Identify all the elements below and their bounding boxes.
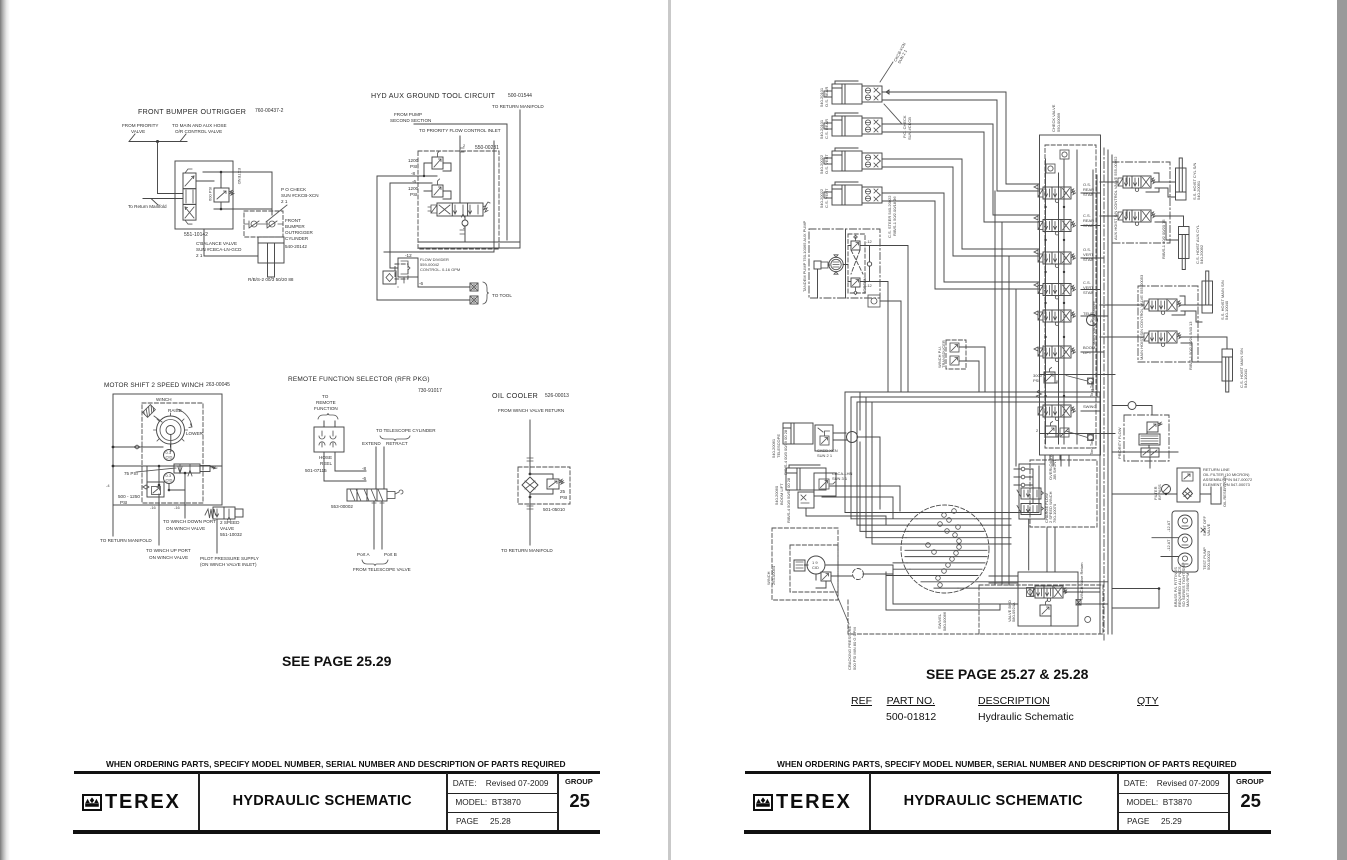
gauge shutoff A (1178, 515, 1192, 529)
gauge pump C (1178, 553, 1192, 567)
inlet check B (1046, 164, 1055, 173)
svg-text:263-00054: 263-00054 (771, 565, 776, 585)
aux module B (1118, 210, 1156, 226)
2 speed valve (205, 509, 216, 518)
svg-text:LOWER: LOWER (186, 431, 204, 436)
gauge block outline (1172, 511, 1198, 572)
wires tool outlets (377, 268, 470, 300)
svg-text:TANDEM PUMP 750-10065 AUX PUMP: TANDEM PUMP 750-10065 AUX PUMP (802, 220, 807, 292)
spool section 3 (183, 204, 196, 220)
lower bank relief (1045, 422, 1056, 438)
see page note L (282, 653, 391, 669)
right vertical bundle (1100, 150, 1112, 634)
wire return manifold (143, 199, 183, 206)
svg-text:ON WINCH VALVE: ON WINCH VALVE (149, 555, 188, 560)
charge spool A (1021, 488, 1041, 499)
winch valve box (1018, 572, 1078, 626)
svg-text:540-20022: 540-20022 (819, 154, 824, 174)
relief 500-1250 (147, 482, 164, 497)
aux module A (1118, 176, 1156, 192)
svg-text:551-10032: 551-10032 (220, 532, 242, 537)
charge flow box (1030, 460, 1097, 527)
winch valve relief (1040, 601, 1051, 617)
title block L (0, 0, 1, 1)
spring right (483, 202, 490, 212)
tele port circle (847, 432, 858, 443)
supply trunks (995, 191, 1016, 585)
svg-text:-12: -12 (866, 239, 873, 244)
wire cyl4 A (882, 193, 1039, 282)
svg-text:2: 2 (463, 143, 466, 148)
svg-text:540-20142: 540-20142 (285, 244, 307, 249)
svg-text:FROM PUMP: FROM PUMP (394, 112, 422, 117)
boom wires (806, 486, 900, 525)
center dashdot riser (1103, 148, 1105, 640)
aux hoist cylinder B (1179, 227, 1190, 270)
svg-text:OIL COOLER: OIL COOLER (492, 392, 538, 400)
steer cylinder 2 (824, 113, 882, 136)
tool connector A (470, 283, 478, 291)
svg-text:600 PSI: 600 PSI (208, 187, 213, 201)
pump relief upper (851, 241, 860, 250)
bank relief (1044, 368, 1055, 384)
relief valve 600 PSI (214, 188, 229, 202)
svg-text:-12 AT: -12 AT (1166, 539, 1171, 551)
svg-text:TO RETURN MANIFOLD: TO RETURN MANIFOLD (100, 538, 152, 543)
svg-text:SUN #CKCB-XCN: SUN #CKCB-XCN (281, 193, 319, 198)
main hoist control box (1138, 286, 1198, 362)
check valve left (251, 221, 257, 227)
priority flow box (1124, 415, 1169, 461)
svg-text:O.S. VERT: O.S. VERT (824, 154, 829, 174)
svg-text:540-20022: 540-20022 (819, 188, 824, 208)
bank module 4 (1038, 284, 1076, 300)
wire cyl1 B (882, 100, 1039, 191)
tick 16 (527, 458, 533, 461)
svg-text:BUMPER: BUMPER (285, 224, 305, 229)
valve body 551-10142 (175, 161, 233, 229)
svg-text:To Return Manifold: To Return Manifold (128, 204, 167, 209)
wire left top (113, 444, 171, 447)
bank module 7 (1038, 405, 1076, 421)
relief valve 1200psi B (432, 185, 443, 197)
svg-text:TO: TO (322, 394, 329, 399)
main pressure bundle (845, 392, 1100, 525)
bank module 3 (1038, 252, 1076, 268)
svg-text:CYLINDER: CYLINDER (285, 236, 309, 241)
terex logo (82, 794, 102, 811)
svg-text:R/B/S-1 50/2.00/18 36: R/B/S-1 50/2.00/18 36 (892, 196, 897, 236)
bank module 2 (1038, 220, 1076, 236)
motor circle A (164, 450, 175, 461)
svg-text:EXTEND: EXTEND (237, 168, 242, 184)
svg-text:-16: -16 (150, 505, 157, 510)
svg-text:500-01544: 500-01544 (508, 93, 532, 99)
wire cyl4 B (882, 201, 1039, 289)
svg-text:500-00023: 500-00023 (1206, 550, 1211, 570)
svg-text:R/B/S-1 50/2 00/20 75: R/B/S-1 50/2 00/20 75 (1161, 219, 1166, 259)
svg-text:OIL RESERVOIR: OIL RESERVOIR (1222, 476, 1227, 507)
wire transducer A (959, 347, 985, 392)
svg-text:SCREEN: SCREEN (862, 277, 867, 294)
outlet port box (868, 295, 880, 307)
main hoist wires (1100, 296, 1227, 362)
bank module 1 (1038, 187, 1076, 203)
torq tool port upper (1088, 378, 1094, 384)
winch valve inlet (1027, 588, 1034, 597)
svg-text:TELESCOPE: TELESCOPE (776, 434, 781, 458)
priority port circle (1128, 402, 1136, 410)
tool connector B (470, 296, 478, 304)
wire cyl3 A (882, 159, 1039, 249)
check valve right (269, 221, 275, 227)
bottom dashed rail (848, 600, 979, 634)
gallery lines (1046, 150, 1078, 444)
svg-text:553-00002: 553-00002 (331, 504, 353, 509)
swivel gallery lines (905, 513, 987, 589)
wires out (324, 452, 366, 481)
ordering line L (106, 759, 566, 769)
svg-text:263-00045: 263-00045 (206, 382, 230, 388)
priority relief (1147, 422, 1158, 432)
priority lower valve (1141, 448, 1159, 457)
svg-text:TO MAIN AND AUX HOSE: TO MAIN AND AUX HOSE (172, 123, 227, 128)
svg-text:501-05010: 501-05010 (543, 507, 565, 512)
svg-text:REMOTE FUNCTION SELECTOR (RFR: REMOTE FUNCTION SELECTOR (RFR PKG) (288, 376, 430, 383)
bank outlet small (1060, 428, 1069, 437)
svg-text:-8: -8 (362, 466, 367, 471)
cooler diamond (522, 477, 538, 493)
bank inlet arrows (1034, 185, 1038, 351)
svg-text:FRONT: FRONT (285, 218, 301, 223)
svg-text:1200: 1200 (408, 186, 419, 191)
svg-text:PILOT PRESSURE SUPPLY: PILOT PRESSURE SUPPLY (200, 556, 259, 561)
oil reservoir tank (1211, 487, 1221, 504)
svg-text:BOOM LIFT: BOOM LIFT (779, 483, 784, 505)
arc arrow (177, 409, 192, 428)
svg-text:MAIN HOIST S/N CONTROL VALVE 5: MAIN HOIST S/N CONTROL VALVE 555-00053 (1139, 274, 1144, 360)
svg-text:PRIORITY FLOW: PRIORITY FLOW (1117, 427, 1122, 459)
port wires (374, 501, 382, 549)
relief B wires (424, 191, 451, 199)
svg-text:AUX HOIST S/N CONTROL VALVE 55: AUX HOIST S/N CONTROL VALVE 555-00052 (1113, 156, 1118, 240)
wire cyl2 B (882, 132, 1039, 222)
svg-text:O/R CONTROL VALVE: O/R CONTROL VALVE (175, 129, 222, 134)
steer cylinder LR (824, 81, 882, 104)
svg-text:540-20101: 540-20101 (819, 87, 824, 107)
svg-text:O.S. REAR: O.S. REAR (824, 87, 829, 107)
spool section 1 (183, 173, 196, 189)
svg-text:-6: -6 (362, 476, 367, 481)
svg-text:TRANSDUCER: TRANSDUCER (941, 340, 946, 368)
relief pilot dash upper (1049, 379, 1057, 383)
svg-text:CID: CID (812, 565, 819, 570)
winch valve module (1030, 586, 1068, 602)
priority filter element (1139, 434, 1160, 445)
winch outer box (113, 394, 222, 505)
wire priority supply (129, 134, 187, 142)
filter gauge (1162, 485, 1171, 494)
swivel right links (958, 466, 1108, 588)
node junction (156, 140, 159, 143)
charge spool B (1021, 504, 1041, 515)
wires into reel (324, 421, 335, 427)
main valve outer box (1040, 135, 1101, 455)
svg-text:-6: -6 (419, 281, 424, 286)
swivel ports (926, 509, 962, 588)
po check assembly box (244, 211, 283, 237)
svg-text:C'BALANCE VALVE: C'BALANCE VALVE (196, 241, 237, 246)
svg-text:1200: 1200 (408, 158, 419, 163)
wire cross (113, 465, 222, 467)
winch valve port X (1076, 600, 1081, 606)
svg-text:BYPASS: BYPASS (1157, 484, 1162, 500)
bank module 5 (1038, 310, 1076, 326)
svg-text:STAB: STAB (1083, 290, 1093, 295)
svg-text:WINCH: WINCH (156, 397, 172, 402)
wire out (529, 494, 531, 545)
couplers (319, 431, 336, 447)
svg-text:P O CHECK: P O CHECK (281, 187, 307, 192)
svg-text:FROM WINCH VALVE RETURN: FROM WINCH VALVE RETURN (498, 408, 564, 413)
svg-text:REEL: REEL (320, 461, 332, 466)
shift spool (174, 464, 200, 473)
wires telescope (376, 447, 384, 489)
svg-text:2 SPEED: 2 SPEED (220, 520, 240, 525)
callout check label mid (884, 104, 902, 124)
bundle to boxes wires (1108, 182, 1112, 305)
svg-text:LIFT: LIFT (1083, 350, 1092, 355)
motor circle B (164, 473, 175, 484)
svg-text:HYD AUX GROUND TOOL CIRCUIT: HYD AUX GROUND TOOL CIRCUIT (371, 92, 496, 100)
main module A (1144, 299, 1182, 315)
svg-text:R/B/S-2 00/3 50/20 88: R/B/S-2 00/3 50/20 88 (248, 277, 294, 282)
relief A wires (424, 163, 451, 176)
wire relief bottom (214, 202, 272, 209)
svg-text:TO RETURN MANIFOLD: TO RETURN MANIFOLD (501, 548, 553, 553)
svg-text:HOSE: HOSE (319, 455, 332, 460)
svg-text:VALVE: VALVE (220, 526, 234, 531)
pilot circle (867, 262, 871, 266)
svg-text:-12 AT: -12 AT (1166, 520, 1171, 532)
svg-text:760-00437-2: 760-00437-2 (255, 108, 284, 114)
svg-text:-16: -16 (174, 505, 181, 510)
svg-text:MAX AT 2500 RPM: MAX AT 2500 RPM (1185, 573, 1190, 607)
svg-text:PSI: PSI (410, 192, 417, 197)
winch callout (831, 581, 849, 624)
solenoid left (428, 205, 437, 213)
svg-text:TO WINCH DOWN PORT: TO WINCH DOWN PORT (163, 519, 216, 524)
wire transducer B (959, 361, 979, 392)
svg-text:FROM PRIORITY: FROM PRIORITY (122, 123, 159, 128)
svg-text:ON WINCH VALVE: ON WINCH VALVE (166, 526, 205, 531)
flex hose zigzag (1037, 390, 1042, 398)
trunk extensions swivel left (860, 436, 908, 544)
svg-text:Torq Tool: Torq Tool (1089, 439, 1094, 455)
svg-text:CID: CID (166, 455, 173, 460)
main module B (1144, 331, 1182, 347)
svg-text:VALVE: VALVE (131, 129, 145, 134)
svg-text:R/B/S-4 50/3 50/52 00 28: R/B/S-4 50/3 50/52 00 28 (786, 477, 791, 523)
big dashed enclosure (979, 585, 1103, 634)
steer cylinder 3 (824, 148, 882, 171)
aux hoist control box (1112, 162, 1170, 243)
tick 2-1 (460, 148, 464, 152)
check block (383, 271, 396, 284)
svg-text:Port A: Port A (357, 552, 370, 557)
A port circle (1087, 315, 1098, 326)
main hoist cylinder A (1202, 271, 1213, 313)
relief valve 1200psi A (432, 157, 443, 169)
svg-text:526-00013: 526-00013 (545, 393, 569, 399)
lower wires swivel to valve (886, 565, 1018, 610)
svg-text:TO PRIORITY FLOW CONTROL INLET: TO PRIORITY FLOW CONTROL INLET (419, 128, 501, 133)
module to bundle links (1081, 193, 1108, 411)
brace to tool (483, 282, 489, 304)
bank module 6 (1038, 346, 1076, 362)
svg-text:REMOTE: REMOTE (316, 400, 336, 405)
svg-text:SUN 2 1: SUN 2 1 (817, 453, 833, 458)
oil filter (1177, 468, 1200, 502)
swivel row connectors (845, 513, 1011, 576)
svg-text:25: 25 (560, 489, 566, 494)
main valve inner dashed (1045, 145, 1096, 448)
bank crossing wires (1040, 375, 1115, 434)
wire pump feed (414, 124, 507, 240)
svg-text:R/B/S-1 50/2 00/24 5/40 13: R/B/S-1 50/2 00/24 5/40 13 (1188, 321, 1193, 370)
svg-text:SUN #CKCB: SUN #CKCB (907, 117, 912, 140)
svg-text:SUN 3 1: SUN 3 1 (832, 476, 848, 481)
svg-text:750-10070: 750-10070 (1052, 503, 1057, 523)
svg-text:540-20092: 540-20092 (1199, 244, 1204, 264)
winch assembly dashed box (772, 528, 838, 600)
wire priority vertical (384, 141, 494, 252)
svg-text:550-00099: 550-00099 (1056, 112, 1061, 132)
torq tool port lower (1088, 435, 1094, 441)
svg-text:TO TELESCOPE CYLINDER: TO TELESCOPE CYLINDER (376, 428, 436, 433)
gauge shutoff B (1178, 534, 1192, 548)
brace top (318, 413, 338, 419)
svg-text:FRONT BUMPER OUTRIGGER: FRONT BUMPER OUTRIGGER (138, 108, 246, 116)
spool section 2 (183, 189, 196, 205)
aux wires (1100, 173, 1184, 240)
svg-text:CID: CID (166, 478, 173, 483)
svg-text:580-00066: 580-00066 (942, 611, 947, 631)
svg-text:550-00231: 550-00231 (475, 145, 499, 151)
winch brake (821, 572, 831, 581)
wire left feed lines (377, 176, 437, 300)
svg-text:PSI: PSI (560, 495, 567, 500)
svg-text:540-10040: 540-10040 (1224, 300, 1229, 320)
winch pressure transducer pair (946, 340, 966, 369)
check valve under (464, 216, 466, 242)
pump motor (829, 257, 843, 271)
boom lift cylinder (786, 468, 826, 490)
svg-text:-8: -8 (411, 171, 416, 176)
svg-text:RETRACT: RETRACT (386, 441, 408, 446)
bypass relief (530, 474, 553, 494)
svg-text:MAIN VALVE 550-00099: MAIN VALVE 550-00099 (1091, 301, 1096, 345)
junction wires (147, 466, 185, 490)
svg-text:540-20101: 540-20101 (819, 119, 824, 139)
svg-text:-4: -4 (106, 483, 110, 488)
svg-text:OUTRIGGER: OUTRIGGER (285, 230, 314, 235)
steer cylinder 4 (824, 182, 882, 205)
pump assembly box (809, 229, 880, 298)
svg-text:551-10142: 551-10142 (184, 232, 208, 238)
winch motor (807, 556, 825, 574)
svg-text:2: 2 (1036, 428, 1039, 433)
filter bypass diamond (1183, 488, 1193, 499)
wire cyl3 B (882, 167, 1039, 256)
charge ports (1021, 467, 1025, 471)
swivel circle (901, 505, 989, 593)
bank bottom risers (1045, 455, 1069, 572)
wire return vertical (419, 110, 520, 248)
return trunk wire (1112, 493, 1211, 495)
wire in (529, 420, 531, 474)
bottom wire (419, 241, 520, 243)
svg-text:C.S. VERT: C.S. VERT (824, 188, 829, 208)
aux hoist cylinder A (1176, 158, 1187, 200)
svg-text:FUNCTION: FUNCTION (314, 406, 338, 411)
svg-text:TO TOOL: TO TOOL (492, 293, 512, 298)
junction dots bank (1044, 206, 1046, 208)
svg-text:VALVE BHD: VALVE BHD (1007, 600, 1012, 622)
svg-text:PSI: PSI (410, 164, 417, 169)
svg-text:-12: -12 (405, 253, 412, 258)
winch valve wires (989, 576, 1108, 626)
bottom tick (460, 230, 464, 234)
svg-text:C.S. REAR: C.S. REAR (824, 119, 829, 139)
spool end marks (185, 169, 192, 224)
svg-text:SUN #CBCA-LN-GCD: SUN #CBCA-LN-GCD (196, 247, 242, 252)
svg-text:WINCH Valve Return: WINCH Valve Return (1079, 563, 1084, 601)
port circle right (1085, 616, 1091, 622)
svg-text:SWING: SWING (1083, 404, 1097, 409)
pump inner dashed (848, 234, 865, 293)
cooler dashed box (518, 467, 570, 504)
svg-text:(ON WINCH VALVE INLET): (ON WINCH VALVE INLET) (200, 562, 257, 567)
svg-text:TO RETURN MANIFOLD: TO RETURN MANIFOLD (492, 104, 544, 109)
svg-text:PSI: PSI (120, 500, 127, 505)
svg-text:540-20060: 540-20060 (774, 485, 779, 505)
main hoist cylinder B (1222, 349, 1233, 392)
svg-text:500 - 1250: 500 - 1250 (118, 494, 140, 499)
inlet check A (1060, 150, 1069, 159)
svg-text:730-91017: 730-91017 (418, 388, 442, 394)
winch drum (157, 416, 185, 444)
wire relief pilot top (196, 172, 272, 188)
svg-text:EXTEND: EXTEND (362, 441, 381, 446)
wire cyl1 A (882, 90, 1039, 184)
wires bottom (113, 485, 217, 553)
svg-text:2 1: 2 1 (196, 253, 203, 258)
svg-text:SECOND SECTION: SECOND SECTION (390, 118, 431, 123)
winch dashed box (142, 403, 203, 503)
svg-text:MOTOR SHIFT 2 SPEED WINCH: MOTOR SHIFT 2 SPEED WINCH (104, 382, 204, 389)
wire to cylinder (204, 172, 272, 256)
pump relief lower (851, 278, 860, 287)
directional valve 4way (437, 203, 483, 216)
svg-text:CONTROL- 0-16 GPM: CONTROL- 0-16 GPM (420, 267, 460, 272)
svg-text:540-20061: 540-20061 (771, 438, 776, 458)
svg-text:540-10041: 540-10041 (1243, 368, 1248, 388)
bundle risers right (908, 170, 1097, 397)
svg-text:FROM TELESCOPE VALVE: FROM TELESCOPE VALVE (353, 567, 411, 572)
svg-text:C.S. STEER 540-20022: C.S. STEER 540-20022 (887, 195, 892, 238)
charge wires (1029, 455, 1060, 570)
